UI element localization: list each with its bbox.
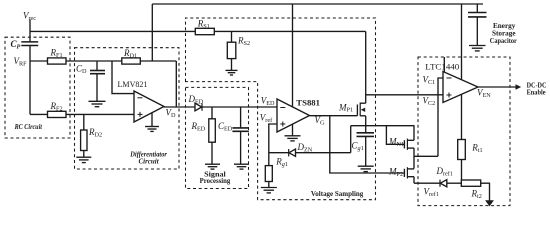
label RS1 bbox=[197, 19, 210, 31]
transistor MP1 bbox=[356, 105, 358, 116]
svg-text:RC Circuit: RC Circuit bbox=[14, 122, 43, 131]
wire drop to inverting input of LMV821 bbox=[112, 61, 134, 94]
wire VC1 riser bbox=[438, 78, 443, 156]
label RF1 bbox=[50, 48, 63, 60]
wire LTC output VEN bbox=[478, 86, 516, 88]
label Dref1 bbox=[436, 166, 453, 178]
wire Vrec rail horizontal y=31.4 to MP1 source drop bbox=[30, 30, 366, 32]
wire LTC supply stub bbox=[443, 57, 445, 76]
wire zener node up to Cg1 node bbox=[350, 126, 352, 153]
svg-text:TS881: TS881 bbox=[296, 99, 320, 108]
label LMV821 bbox=[118, 79, 148, 89]
label RF2 bbox=[50, 101, 63, 113]
wire RF1 to inverting-input drop (differentiator input line) bbox=[66, 60, 122, 62]
resistor RD2 bbox=[81, 130, 87, 151]
TS881 minus sign bbox=[280, 107, 285, 109]
ground under op-amp bbox=[145, 127, 159, 132]
ground under TS881 bbox=[285, 136, 301, 141]
wire DZN branch from VG wire down bbox=[329, 116, 331, 153]
LTC plus sign bbox=[447, 93, 452, 98]
box LTC1440 (dashed) bbox=[418, 57, 510, 206]
comparator U2 TS881 supply wire from top rail bbox=[292, 4, 294, 107]
label RD1 bbox=[123, 48, 137, 60]
label Cg1 bbox=[352, 140, 364, 152]
diode DZN (zener, pointing left) bbox=[288, 149, 290, 156]
wire RF2 row: VRF column to RF2 bbox=[30, 113, 48, 115]
LTC minus sign bbox=[447, 77, 452, 79]
label DED bbox=[188, 94, 204, 106]
capacitor CP bbox=[21, 42, 38, 46]
label RC Circuit bbox=[14, 122, 43, 131]
ground under storage capacitor bbox=[469, 46, 486, 51]
resistor Rt1 bbox=[458, 140, 466, 160]
resistor RS2 bbox=[227, 42, 236, 58]
label Vref bbox=[260, 112, 273, 124]
svg-text:Processing: Processing bbox=[200, 177, 231, 185]
label DZN bbox=[297, 142, 313, 154]
svg-text:Voltage Sampling: Voltage Sampling bbox=[311, 190, 364, 198]
box Differentiator Circuit (dashed) bbox=[75, 48, 180, 169]
wire MP2 source down to bottom row bbox=[413, 177, 415, 184]
node Vrec label bbox=[23, 10, 36, 22]
wire op-amp ground pin bbox=[151, 112, 153, 126]
label Vref1 bbox=[424, 187, 439, 199]
wire MN1 gate riser bbox=[386, 126, 404, 145]
wire top rail y=4 from differentiator column to storage cap bbox=[152, 3, 483, 5]
wire gate-node row bbox=[351, 125, 415, 127]
wire TS881 ground pin bbox=[292, 124, 294, 135]
label MN1 bbox=[388, 137, 404, 148]
box Signal Processing (dashed) bbox=[186, 87, 249, 188]
resistor Rt2 (horizontal) bbox=[461, 180, 480, 186]
diode Dref1 (pointing left) bbox=[439, 180, 441, 187]
label LTC1440 bbox=[425, 61, 459, 71]
svg-text:LTC1440: LTC1440 bbox=[425, 61, 459, 71]
ground under CED bbox=[234, 164, 249, 169]
ground under RD2 bbox=[76, 157, 91, 162]
wire RED drop bbox=[211, 107, 213, 119]
wire MP2 gate feed: down then right bbox=[330, 153, 405, 173]
wire zener row bbox=[269, 152, 351, 154]
op-amp plus sign bbox=[138, 112, 143, 117]
arrow ground (down arrow) bbox=[485, 200, 494, 206]
wire Dref1 to Rt2 bbox=[447, 182, 462, 184]
svg-text:Circuit: Circuit bbox=[139, 156, 160, 165]
wire MP1 source column from rail bbox=[365, 31, 367, 103]
label VD bbox=[166, 108, 177, 120]
wire MP1 drain down to gate-node row bbox=[365, 116, 367, 133]
wire RF2 to op-amp plus input bbox=[66, 113, 134, 115]
label VC2 bbox=[423, 96, 436, 108]
wire RD1 right to feedback drop bbox=[140, 60, 176, 62]
wire Rt2 to arrow ground bbox=[481, 183, 490, 200]
wire RD2 drop bbox=[83, 114, 85, 130]
capacitor energy storage bbox=[476, 4, 478, 12]
diode DED bbox=[195, 103, 202, 111]
wire Rt1 bottom to Rt2 bbox=[461, 159, 463, 180]
wire feedback drop to output bbox=[175, 61, 177, 107]
wire RED to ground bbox=[211, 142, 213, 164]
wire vertical x=152.3 from top rail down to feedback wire bbox=[151, 4, 153, 61]
wire bottom row from MP2 to Dref1 bbox=[414, 182, 440, 184]
resistor RED bbox=[209, 119, 216, 142]
label Rt1 bbox=[471, 143, 482, 155]
box RC Circuit (dashed) bbox=[5, 37, 70, 138]
resistor RF2 bbox=[48, 111, 67, 117]
capacitor CED bbox=[240, 107, 242, 128]
wire CP bottom down through VRF node to RF2 wire bbox=[29, 46, 31, 115]
label Energy Storage Capacitor bbox=[490, 22, 518, 45]
resistor Rg1 bbox=[265, 166, 272, 182]
label Signal Processing bbox=[200, 170, 231, 185]
MP1 arrow bbox=[361, 108, 365, 112]
wire MN1 drain up to gate-node row bbox=[413, 126, 415, 141]
label CP bbox=[11, 39, 21, 50]
transistor MP2 bbox=[403, 169, 405, 177]
wire RD2 to ground bbox=[83, 151, 85, 158]
comparator U2 TS881 bbox=[277, 99, 310, 132]
wire Rg1 to ground bbox=[268, 182, 270, 188]
label VED bbox=[261, 96, 275, 108]
wire RS2 to ground bbox=[231, 59, 233, 71]
ground under RS2 bbox=[226, 70, 238, 75]
wire op-amp output VD to TS881 inverting input bbox=[164, 106, 277, 108]
op-amp minus sign bbox=[138, 97, 143, 99]
ground under Cg1 bbox=[358, 166, 374, 171]
label TS881 bbox=[296, 99, 320, 108]
label Rt2 bbox=[471, 188, 482, 200]
svg-text:Capacitor: Capacitor bbox=[490, 37, 518, 45]
label MP1 bbox=[338, 102, 353, 113]
op-amp U1 LMV821 bbox=[134, 91, 164, 122]
wire VRF node to RF1 bbox=[30, 60, 48, 62]
label VRF bbox=[14, 56, 28, 68]
resistor RF1 bbox=[48, 58, 67, 64]
label CED bbox=[218, 121, 233, 133]
label RED bbox=[191, 121, 206, 133]
label RD2 bbox=[88, 127, 102, 139]
label RS2 bbox=[237, 35, 250, 47]
wire Vrec vertical down to CP bbox=[29, 20, 31, 42]
transistor MN1 bbox=[403, 140, 405, 148]
svg-text:Enable: Enable bbox=[527, 89, 546, 97]
label VG bbox=[315, 115, 326, 127]
wire V C2 row from MP1 column to LTC plus input bbox=[366, 94, 443, 96]
svg-text:LMV821: LMV821 bbox=[118, 79, 148, 89]
label Voltage Sampling bbox=[311, 190, 364, 198]
wire Rt1 feed column from top rail bbox=[461, 4, 463, 140]
ground under CD bbox=[89, 101, 106, 106]
label Rg1 bbox=[275, 156, 288, 168]
label CD bbox=[76, 64, 87, 76]
arrow DC-DC enable bbox=[516, 84, 522, 90]
label VC1 bbox=[423, 75, 436, 87]
label MP2 bbox=[388, 167, 403, 178]
comparator U3 LTC1440 bbox=[443, 72, 478, 103]
wire MN1-MP2 mid node bbox=[413, 148, 415, 169]
resistor RD1 (feedback) bbox=[122, 58, 141, 64]
label Differentiator Circuit bbox=[129, 149, 167, 165]
capacitor Cg1 bbox=[357, 133, 375, 137]
ground under RED bbox=[205, 164, 220, 169]
wire Vref vertical + plus input bbox=[269, 124, 277, 166]
wire TS881 output VG to MP1 gate bbox=[310, 115, 358, 117]
label VEN bbox=[477, 88, 491, 100]
label DC-DC Enable bbox=[527, 82, 547, 97]
box Voltage Sampling (dashed L-shape) bbox=[186, 18, 376, 200]
capacitor CD shunt bbox=[96, 61, 98, 70]
TS881 plus sign bbox=[280, 122, 285, 127]
wire mid node to VC1 riser bbox=[414, 155, 438, 157]
ground under Rg1 bbox=[261, 188, 277, 193]
resistor RS1 on Vrec rail bbox=[195, 28, 214, 34]
wire RS2 drop from rail bbox=[231, 31, 233, 42]
